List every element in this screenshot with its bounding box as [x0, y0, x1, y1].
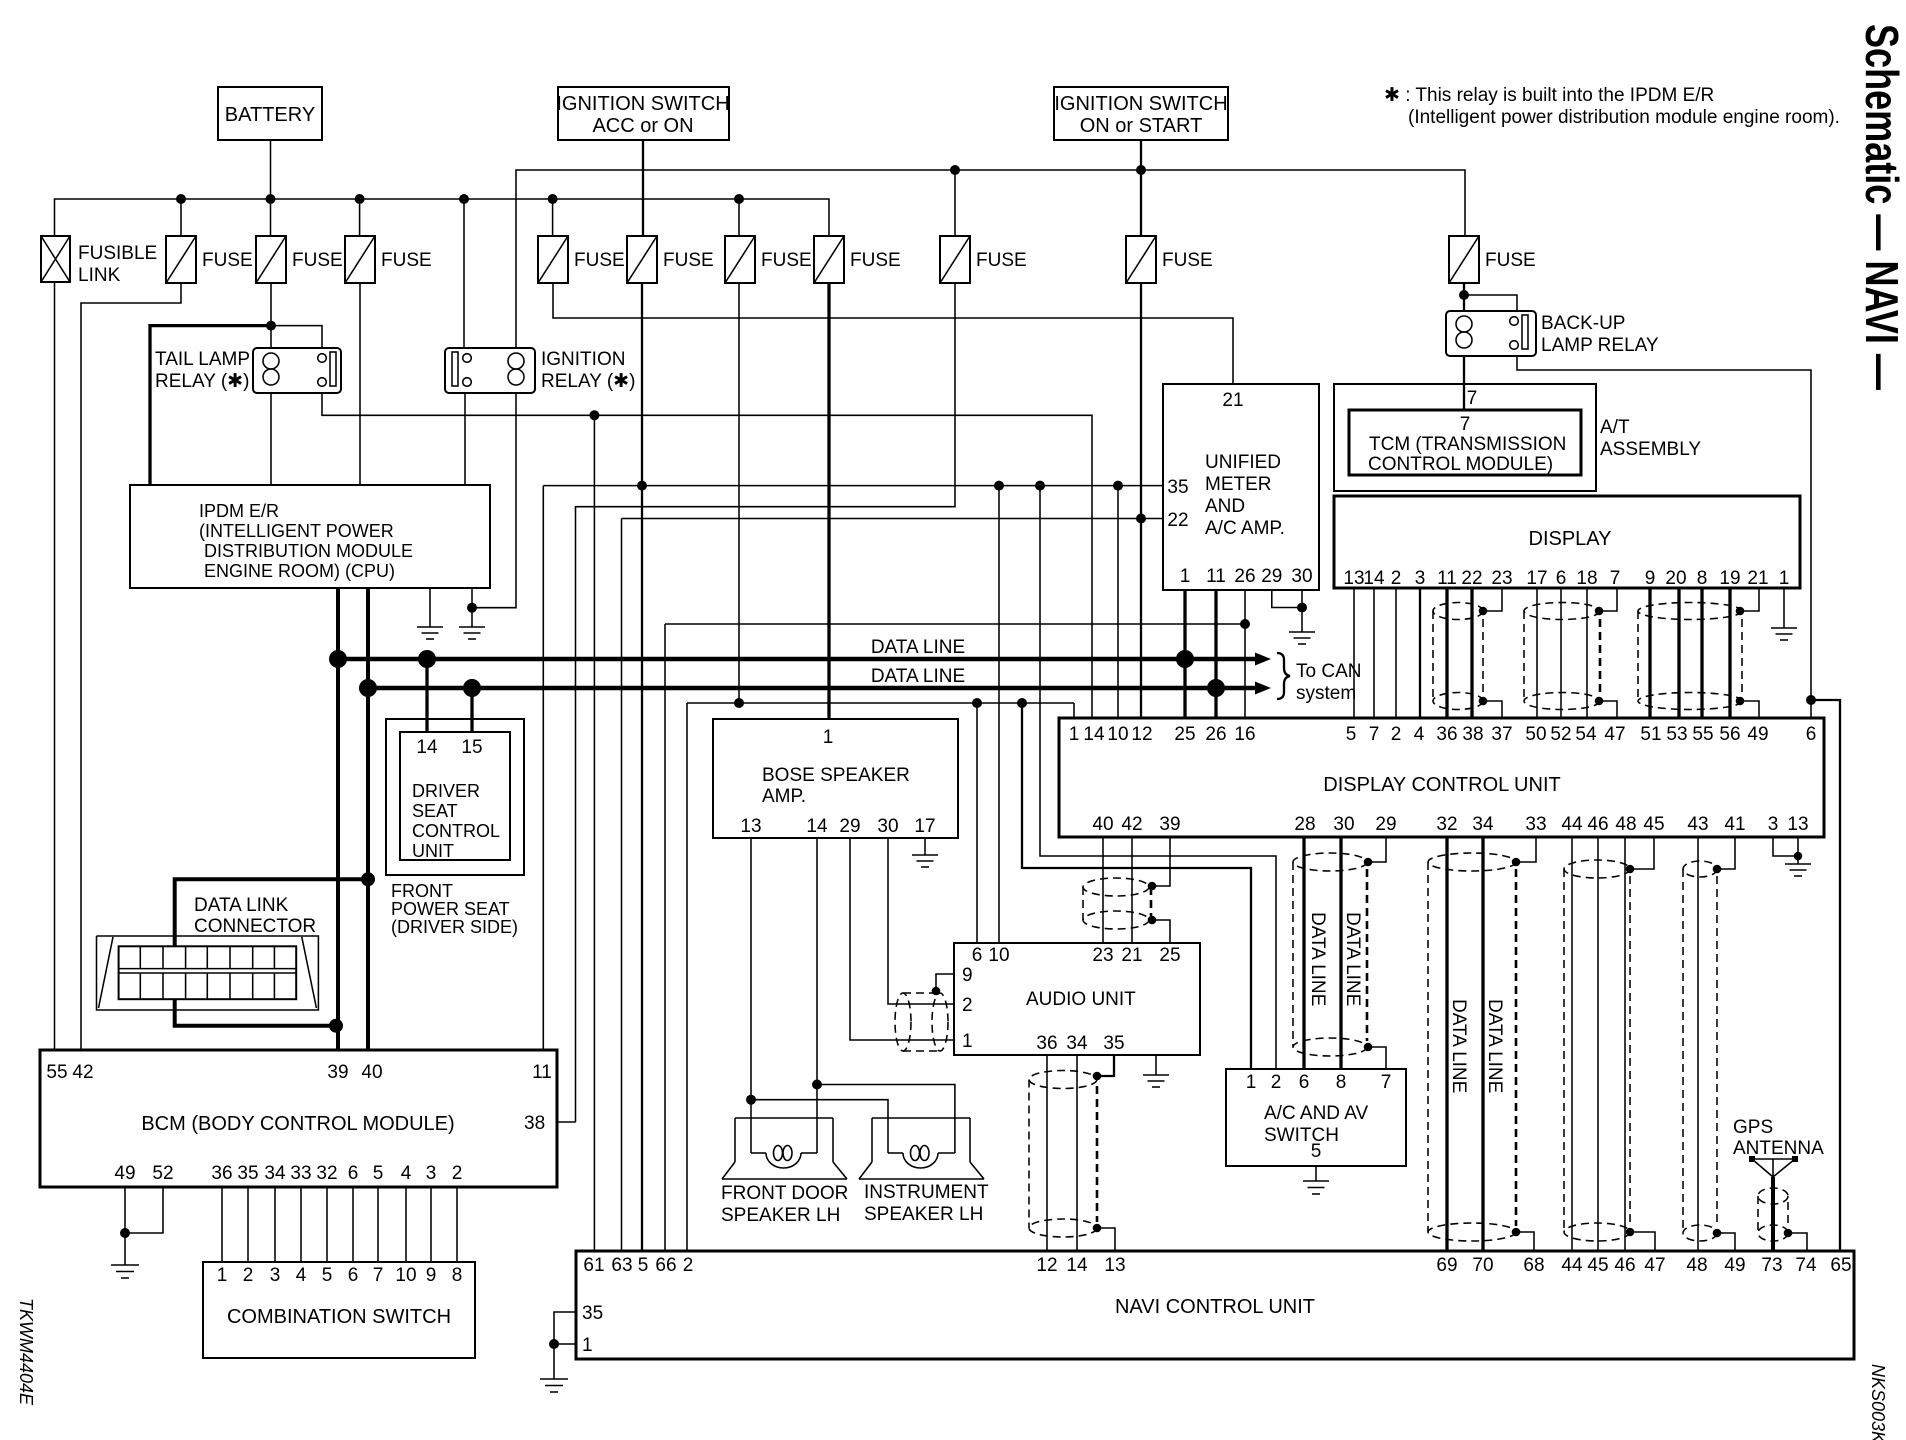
svg-text:7: 7 — [1460, 414, 1471, 435]
svg-text:A/T: A/T — [1600, 417, 1630, 438]
svg-text:Schematic — NAVI —: Schematic — NAVI — — [1856, 24, 1906, 390]
svg-text:FUSE: FUSE — [202, 250, 253, 271]
fuse F6 — [725, 236, 812, 283]
svg-text:3: 3 — [1415, 568, 1426, 589]
wire bose30 to audio2 — [888, 838, 954, 1004]
svg-text:55: 55 — [46, 1062, 67, 1083]
wire audio ground — [1155, 1055, 1157, 1075]
svg-text:38: 38 — [1462, 724, 1483, 745]
svg-text:13: 13 — [1104, 1255, 1125, 1276]
svg-text:32: 32 — [316, 1163, 337, 1184]
svg-text:LINK: LINK — [78, 265, 121, 286]
back-up lamp relay K3 — [1446, 311, 1659, 356]
svg-text:POWER SEAT: POWER SEAT — [391, 899, 510, 919]
wire bose13 to front door speaker — [750, 838, 752, 1118]
svg-text:2: 2 — [962, 995, 973, 1016]
svg-text:DATA LINK: DATA LINK — [194, 895, 289, 916]
wire shield to NAVI47 — [1630, 1232, 1655, 1252]
shield cylinder GPS — [1758, 1188, 1788, 1241]
svg-text:44: 44 — [1561, 814, 1583, 835]
ground DISPLAY — [1771, 628, 1797, 640]
wire BCM2 to comb8 — [456, 1187, 458, 1262]
svg-text:FUSE: FUSE — [292, 250, 343, 271]
svg-text:(Intelligent power distributio: (Intelligent power distribution module e… — [1408, 107, 1840, 128]
wire DCU34 to NAVI70 thick — [1481, 837, 1484, 1252]
node bus big dots — [329, 650, 1225, 697]
wire DISPLAY14 to DCU7 — [1373, 588, 1375, 718]
svg-text:12: 12 — [1131, 724, 1152, 745]
svg-text:7: 7 — [1369, 724, 1380, 745]
svg-text:16: 16 — [1234, 724, 1255, 745]
wire AUDIO6 vertical — [976, 703, 978, 943]
wire BCM36 to comb1 — [221, 1187, 223, 1262]
wire DISPLAY22 to DCU38 thick — [1470, 588, 1473, 718]
wire DISPLAY7 shield drain — [1599, 588, 1617, 611]
svg-text:2: 2 — [1391, 724, 1402, 745]
svg-text:34: 34 — [1472, 814, 1494, 835]
svg-text:8: 8 — [452, 1265, 463, 1286]
svg-text:3: 3 — [1768, 814, 1779, 835]
svg-text:6: 6 — [1806, 724, 1817, 745]
wire fuse F4 out to UNIFIED21 — [553, 283, 1233, 384]
wire DISPLAY13 to DCU5 — [1353, 588, 1355, 718]
svg-text:53: 53 — [1666, 724, 1687, 745]
TCM box — [1349, 410, 1581, 475]
svg-text:IPDM E/R: IPDM E/R — [199, 501, 279, 521]
wire DCU30 to AC8 thick — [1339, 837, 1342, 1069]
svg-text:49: 49 — [114, 1163, 135, 1184]
wire DISPLAY19 to DCU56 thick — [1728, 588, 1731, 718]
data link connector DLC — [97, 895, 319, 1010]
svg-text:ASSEMBLY: ASSEMBLY — [1600, 439, 1701, 460]
svg-text:FUSE: FUSE — [663, 250, 714, 271]
fuse F10 — [1449, 236, 1536, 283]
svg-text:41: 41 — [1724, 814, 1745, 835]
wire DISPLAY18 to DCU54 — [1586, 588, 1588, 718]
BCM body control module box — [40, 1050, 557, 1187]
svg-text:5: 5 — [373, 1163, 384, 1184]
svg-text:14: 14 — [416, 737, 438, 758]
svg-text:6: 6 — [1556, 568, 1567, 589]
svg-text:10: 10 — [1107, 724, 1128, 745]
wire UNIFIED26 to NAVI66 y624 — [665, 623, 1245, 625]
svg-text:65: 65 — [1830, 1255, 1851, 1276]
wire AUDIO35 shield drain thick — [1097, 1055, 1114, 1076]
wire y703 net — [687, 702, 1074, 704]
node shield audio top dot — [1148, 882, 1157, 891]
node rail dots — [950, 165, 1146, 175]
svg-text:42: 42 — [1121, 814, 1142, 835]
svg-text:4: 4 — [1414, 724, 1425, 745]
svg-text:69: 69 — [1436, 1255, 1457, 1276]
svg-text:AND: AND — [1205, 496, 1245, 517]
battery B1 — [218, 87, 322, 140]
svg-text:ON or START: ON or START — [1080, 115, 1203, 137]
front door speaker LS1 — [722, 1118, 847, 1179]
svg-text:11: 11 — [1437, 568, 1457, 589]
wire seat feed 14 thick — [425, 659, 428, 732]
fuse F2 — [256, 236, 343, 283]
wire BCM49 ground — [124, 1187, 126, 1265]
svg-text:29: 29 — [1261, 566, 1282, 587]
svg-text:UNIT: UNIT — [412, 841, 454, 861]
wire backup relay coil to TCM7 — [1463, 356, 1465, 410]
ground bose — [912, 855, 938, 867]
note asterisk — [1384, 85, 1840, 128]
svg-text:4: 4 — [401, 1163, 412, 1184]
wire fuse F2 out to tail relay — [270, 283, 272, 348]
wire DISPLAY23 shield drain — [1483, 588, 1502, 611]
wire DISPLAY11 to DCU36 thick — [1445, 588, 1448, 718]
wire shield to AUDIO25 — [1152, 920, 1170, 943]
wire DISPLAY17 to DCU50 — [1536, 588, 1538, 718]
wire fusible link out to BCM55 — [54, 282, 56, 1050]
svg-text:46: 46 — [1614, 1255, 1635, 1276]
svg-text:35: 35 — [237, 1163, 258, 1184]
wire DCU33 shield drain — [1517, 837, 1536, 862]
svg-text:1: 1 — [1069, 724, 1080, 745]
node battery bus dots — [176, 194, 744, 204]
wire shield2 to DCU47 — [1599, 701, 1617, 718]
svg-text:14: 14 — [1066, 1255, 1088, 1276]
node y415 dot NAVI61 branch — [589, 410, 599, 420]
wire UNIFIED1 CAN thick — [1183, 590, 1186, 718]
svg-text:AMP.: AMP. — [762, 786, 806, 807]
wire BCM34 to comb3 — [274, 1187, 276, 1262]
svg-text:52: 52 — [152, 1163, 173, 1184]
svg-text:8: 8 — [1697, 568, 1708, 589]
wire DCU44 to NAVI44 — [1571, 837, 1573, 1252]
svg-text:2: 2 — [452, 1163, 463, 1184]
svg-text:23: 23 — [1491, 568, 1512, 589]
wire 22-net y518 — [622, 518, 1164, 520]
svg-text:NAVI CONTROL UNIT: NAVI CONTROL UNIT — [1115, 1296, 1315, 1318]
wire BCM32 to comb5 — [326, 1187, 328, 1262]
svg-text:6: 6 — [348, 1163, 359, 1184]
node DLC upper dot — [361, 872, 375, 886]
svg-text:40: 40 — [1092, 814, 1113, 835]
wire instrument speaker right branch — [817, 1085, 955, 1119]
svg-text:11: 11 — [1206, 566, 1226, 587]
svg-text:13: 13 — [1787, 814, 1808, 835]
svg-text:5: 5 — [1346, 724, 1357, 745]
svg-text:17: 17 — [1526, 568, 1547, 589]
svg-text:40: 40 — [361, 1062, 382, 1083]
ignition switch ON/START — [1054, 87, 1228, 140]
wire UNIFIED11 CAN thick — [1214, 590, 1217, 718]
node shield 48 top dot — [1713, 865, 1722, 874]
svg-text:15: 15 — [461, 737, 482, 758]
svg-text:35: 35 — [1103, 1033, 1124, 1054]
wire UNIFIED30 ground — [1301, 590, 1303, 632]
svg-text:ACC or ON: ACC or ON — [592, 115, 693, 137]
wire NAVI66 vertical — [664, 624, 666, 1252]
node tail relay feed dot — [266, 321, 276, 331]
svg-text:1: 1 — [217, 1265, 228, 1286]
wire NAVI65 branch — [1811, 700, 1840, 1252]
node shield1 bottom dot — [1479, 697, 1488, 706]
label front door speaker — [721, 1183, 848, 1226]
wire ACC switch down — [642, 140, 644, 236]
svg-text:49: 49 — [1724, 1255, 1745, 1276]
wire DISPLAY1 ground — [1783, 588, 1785, 628]
wire AC1 branch — [1022, 703, 1251, 1069]
shield cylinder audio in — [895, 993, 948, 1051]
wire DCU1 vertical — [1073, 703, 1075, 718]
node relay coil ground dot — [467, 603, 477, 613]
svg-text:70: 70 — [1472, 1255, 1493, 1276]
svg-text:CONNECTOR: CONNECTOR — [194, 916, 316, 937]
navi control unit box — [576, 1251, 1854, 1359]
svg-text:SPEAKER LH: SPEAKER LH — [864, 1204, 983, 1225]
node 22-net fuse dot — [1136, 514, 1146, 524]
shield cylinder display2 — [1524, 603, 1600, 710]
bose speaker amp box — [713, 719, 958, 838]
svg-text:36: 36 — [1436, 724, 1457, 745]
svg-text:42: 42 — [72, 1062, 93, 1083]
ground DCU — [1785, 864, 1811, 876]
svg-text:50: 50 — [1525, 724, 1546, 745]
svg-text:IGNITION: IGNITION — [541, 349, 625, 370]
fuse F7 — [814, 236, 901, 283]
wire fuse F1 out to BCM42 — [81, 283, 181, 1050]
svg-text:UNIFIED: UNIFIED — [1205, 452, 1281, 473]
svg-text:RELAY (✱): RELAY (✱) — [155, 371, 249, 392]
svg-text:39: 39 — [327, 1062, 348, 1083]
AC and AV switch box — [1226, 1069, 1406, 1166]
svg-text:1: 1 — [582, 1335, 593, 1356]
node UNIFIED2930 dot — [1297, 603, 1307, 613]
wire DCU42 to AUDIO21 — [1131, 837, 1133, 943]
wire fuse F5 out to NAVI5 — [641, 283, 643, 1252]
svg-text:56: 56 — [1719, 724, 1740, 745]
svg-text:BOSE SPEAKER: BOSE SPEAKER — [762, 765, 910, 786]
svg-text:26: 26 — [1234, 566, 1255, 587]
node NAVI ground dot — [549, 1339, 559, 1349]
wire BCM6 to comb6 — [352, 1187, 354, 1262]
node shield 6970 bottom dot — [1512, 1228, 1521, 1237]
svg-text:54: 54 — [1575, 724, 1597, 745]
svg-text:(INTELLIGENT POWER: (INTELLIGENT POWER — [199, 521, 394, 541]
wire DCU48 to NAVI46 — [1624, 837, 1626, 1252]
wire fuse F6 out to node703 — [738, 283, 740, 703]
shield cylinder display3 — [1638, 603, 1742, 710]
wire UNIFIED29 jog — [1272, 590, 1302, 608]
A/T assembly box — [1334, 384, 1701, 491]
svg-text:COMBINATION SWITCH: COMBINATION SWITCH — [227, 1306, 451, 1328]
IPDM E/R box U1 — [130, 485, 490, 588]
wire AC2 branch — [1040, 486, 1276, 1069]
arrow bus1 — [1255, 653, 1271, 666]
display control unit box — [1059, 718, 1824, 837]
svg-text:25: 25 — [1174, 724, 1195, 745]
svg-text:8: 8 — [1336, 1072, 1347, 1093]
wire shield1 to DCU37 — [1483, 701, 1502, 718]
wire DISPLAY9 to DCU51 thick — [1648, 588, 1651, 718]
wire DLC upper thick — [175, 879, 368, 946]
wire DLC lower thick — [175, 999, 336, 1026]
wire GPS to NAVI73 thick — [1771, 1177, 1775, 1252]
node DLC lower dot — [329, 1019, 343, 1033]
node shield navi left bottom dot — [1093, 1224, 1102, 1233]
wire IPDM CAN1 thick — [336, 588, 340, 1050]
svg-text:1: 1 — [962, 1031, 973, 1052]
instrument speaker LS2 — [859, 1118, 984, 1179]
svg-text:23: 23 — [1092, 945, 1113, 966]
wire DCU43 to NAVI48 — [1697, 837, 1699, 1252]
svg-text:SEAT: SEAT — [412, 801, 458, 821]
fuse F5 — [627, 236, 714, 283]
wire audio9 drain — [936, 974, 954, 991]
wire DCU41 shield drain — [1718, 837, 1735, 869]
ground IPDM1 — [417, 627, 443, 639]
svg-text:SWITCH: SWITCH — [1264, 1125, 1339, 1146]
node y703 dots — [734, 698, 1027, 708]
svg-text:14: 14 — [806, 816, 828, 837]
wire IPDM CAN2 thick — [366, 588, 370, 1050]
label instrument speaker — [864, 1182, 989, 1225]
svg-text:2: 2 — [243, 1265, 254, 1286]
wire shield to NAVI74 — [1788, 1233, 1807, 1252]
svg-text:(DRIVER SIDE): (DRIVER SIDE) — [391, 917, 518, 937]
svg-text:5: 5 — [1311, 1141, 1322, 1162]
display box — [1334, 496, 1800, 589]
svg-text:TAIL LAMP: TAIL LAMP — [155, 349, 250, 370]
svg-text:9: 9 — [962, 965, 973, 986]
node audio9 shield dot — [932, 987, 941, 996]
svg-text:74: 74 — [1795, 1255, 1817, 1276]
svg-text:30: 30 — [1333, 814, 1354, 835]
svg-text:3: 3 — [426, 1163, 437, 1184]
svg-text:FUSE: FUSE — [850, 250, 901, 271]
svg-text:73: 73 — [1761, 1255, 1782, 1276]
node shield GPS dot — [1784, 1229, 1793, 1238]
wire tail relay coil out to IPDM — [270, 393, 272, 485]
wire BCM52 jog — [125, 1187, 163, 1233]
svg-text:29: 29 — [1375, 814, 1396, 835]
svg-text:FRONT: FRONT — [391, 881, 453, 901]
svg-text:METER: METER — [1205, 474, 1272, 495]
svg-text:DATA LINE: DATA LINE — [1307, 912, 1328, 1006]
node speaker dot 13 — [746, 1095, 756, 1105]
ignition switch ACC — [556, 87, 729, 140]
svg-text:22: 22 — [1461, 568, 1482, 589]
wire NAVI2 vertical — [686, 703, 688, 1252]
svg-text:DATA LINE: DATA LINE — [871, 666, 965, 687]
wire BCM38 jog — [557, 1121, 576, 1123]
svg-text:55: 55 — [1692, 724, 1713, 745]
audio unit box — [954, 943, 1200, 1055]
wire bose29 to audio1 — [850, 838, 954, 1040]
svg-text:46: 46 — [1587, 814, 1608, 835]
wire AUDIO34 to NAVI14 — [1076, 1055, 1078, 1252]
shield cylinder audio top — [1083, 878, 1151, 929]
svg-text:FRONT DOOR: FRONT DOOR — [721, 1183, 848, 1204]
svg-text:51: 51 — [1640, 724, 1661, 745]
svg-text:CONTROL: CONTROL — [412, 821, 500, 841]
wire DCU46 to NAVI45 — [1597, 837, 1599, 1252]
svg-text:NKS003K4: NKS003K4 — [1868, 1364, 1888, 1440]
shield cylinder navi left — [1029, 1071, 1097, 1238]
fuse F4 — [538, 236, 625, 283]
node y624 dot on UNIFIED26 wire — [1240, 619, 1250, 629]
svg-text:32: 32 — [1436, 814, 1457, 835]
svg-text:36: 36 — [211, 1163, 232, 1184]
wire fuse F7 out to BOSE1 thick — [827, 283, 830, 719]
svg-text:DATA LINE: DATA LINE — [1342, 912, 1363, 1006]
node shield audio bottom dot — [1148, 916, 1157, 925]
wire DCU10 vertical — [1117, 486, 1119, 718]
svg-text:5: 5 — [322, 1265, 333, 1286]
wire ignition relay contact out to IPDM — [464, 393, 466, 485]
GPS antenna symbol — [1749, 1156, 1798, 1177]
wire AC5 ground — [1315, 1166, 1317, 1181]
shield cylinder navi 48 — [1683, 861, 1717, 1241]
svg-text:ENGINE ROOM) (CPU): ENGINE ROOM) (CPU) — [204, 561, 395, 581]
wire IPDM ground 1 — [429, 588, 431, 627]
svg-text:29: 29 — [839, 816, 860, 837]
svg-text:68: 68 — [1523, 1255, 1544, 1276]
svg-text:34: 34 — [264, 1163, 286, 1184]
label To CAN system — [1296, 661, 1361, 704]
svg-text:DATA LINE: DATA LINE — [1484, 999, 1505, 1093]
svg-text:20: 20 — [1665, 568, 1686, 589]
fuse F8 — [940, 236, 1027, 283]
svg-text:IGNITION SWITCH: IGNITION SWITCH — [556, 93, 729, 115]
svg-text:52: 52 — [1550, 724, 1571, 745]
svg-text:DISTRIBUTION MODULE: DISTRIBUTION MODULE — [204, 541, 413, 561]
node BCM ground dot — [120, 1228, 130, 1238]
unified meter and AC amp box — [1163, 384, 1319, 590]
svg-text:7: 7 — [1467, 388, 1478, 409]
svg-text:22: 22 — [1167, 510, 1188, 531]
wire fuse F9 out to DCU12 — [1140, 283, 1142, 718]
wire DISPLAY20 to DCU53 thick — [1677, 588, 1680, 718]
svg-text:A/C AND AV: A/C AND AV — [1264, 1103, 1369, 1124]
svg-text:48: 48 — [1686, 1255, 1707, 1276]
svg-text:DRIVER: DRIVER — [412, 781, 480, 801]
svg-text:A/C AMP.: A/C AMP. — [1205, 518, 1285, 539]
svg-text:SPEAKER LH: SPEAKER LH — [721, 1205, 840, 1226]
data line bus 1 — [338, 657, 1257, 662]
shield cylinder AC — [1293, 853, 1367, 1056]
svg-text:36: 36 — [1036, 1033, 1057, 1054]
fuse F1 — [166, 236, 253, 283]
node shield2 bottom dot — [1595, 697, 1604, 706]
wire fuse F3 out to IPDM — [359, 283, 361, 485]
wire backup relay contact out to DCU6 — [1517, 356, 1811, 718]
svg-text:5: 5 — [638, 1255, 649, 1276]
svg-text:13: 13 — [740, 816, 761, 837]
svg-text:7: 7 — [373, 1265, 384, 1286]
svg-text:9: 9 — [1645, 568, 1656, 589]
combination switch box — [203, 1262, 475, 1358]
wire IPDM ground 2 — [471, 588, 473, 627]
svg-text:21: 21 — [1747, 568, 1768, 589]
svg-text:45: 45 — [1587, 1255, 1608, 1276]
svg-text:DISPLAY CONTROL UNIT: DISPLAY CONTROL UNIT — [1323, 774, 1560, 796]
svg-text:11: 11 — [532, 1062, 552, 1083]
wire DCU40 to AUDIO23 — [1102, 837, 1104, 943]
svg-text:LAMP RELAY: LAMP RELAY — [1541, 335, 1659, 356]
wire DCU13 ground — [1797, 837, 1799, 864]
ignition relay K2 — [445, 348, 635, 393]
svg-text:DISPLAY: DISPLAY — [1529, 528, 1612, 550]
wire DCU28 to AC6 thick — [1302, 837, 1305, 1069]
fuse F9 — [1126, 236, 1213, 283]
svg-text:2: 2 — [683, 1255, 694, 1276]
wire DISPLAY2 to DCU2 — [1395, 588, 1397, 718]
